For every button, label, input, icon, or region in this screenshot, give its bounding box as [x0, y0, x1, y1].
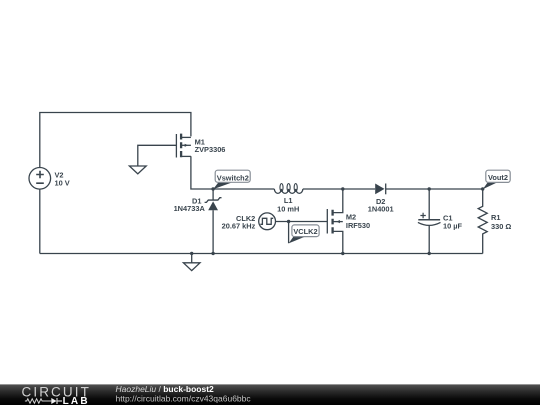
svg-text:10 µF: 10 µF	[443, 222, 463, 231]
svg-text:330 Ω: 330 Ω	[491, 222, 511, 231]
svg-text:10 mH: 10 mH	[277, 204, 299, 213]
svg-text:1N4733A: 1N4733A	[174, 204, 206, 213]
svg-text:LAB: LAB	[63, 396, 90, 405]
svg-text:Vout2: Vout2	[488, 173, 508, 182]
svg-text:10 V: 10 V	[55, 179, 70, 188]
svg-text:http://circuitlab.com/czv43qa6: http://circuitlab.com/czv43qa6u6bbc	[116, 394, 252, 404]
svg-text:20.67 kHz: 20.67 kHz	[222, 221, 256, 230]
svg-text:R1: R1	[491, 213, 500, 222]
svg-text:Vswitch2: Vswitch2	[217, 173, 249, 182]
svg-text:ZVP3306: ZVP3306	[195, 145, 226, 154]
svg-text:1N4001: 1N4001	[368, 205, 394, 214]
svg-text:IRF530: IRF530	[346, 221, 370, 230]
svg-text:VCLK2: VCLK2	[293, 227, 317, 236]
svg-text:HaozheLiu / buck-boost2: HaozheLiu / buck-boost2	[116, 384, 215, 394]
